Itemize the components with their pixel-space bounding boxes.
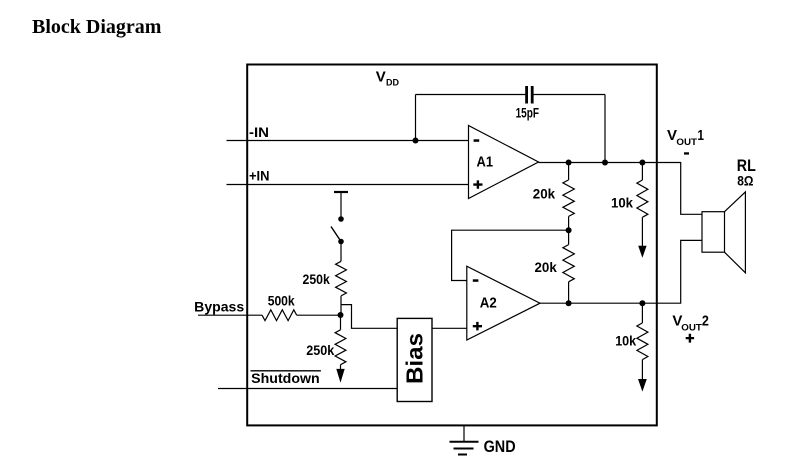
wire feedback vertical from -IN node	[415, 95, 417, 141]
node A2 out / 20k	[566, 300, 572, 306]
wire Bypass line left segment	[198, 314, 262, 316]
wire 250k upper to bypass junction	[340, 296, 342, 315]
svg-text:Bias: Bias	[402, 333, 428, 384]
arrow 10k upper	[638, 246, 646, 258]
svg-text:2: 2	[702, 312, 709, 329]
node on -IN line	[413, 138, 419, 144]
resistor R5 20k lower zigzag	[563, 245, 574, 282]
VOUT2 plus mark	[686, 334, 694, 343]
resistor R6 10k upper lead to arrow	[641, 217, 643, 246]
switch S1 arm	[331, 227, 341, 242]
svg-text:A1: A1	[477, 154, 494, 171]
VOUT1 minus mark	[684, 152, 689, 154]
ground bar 1	[450, 441, 479, 443]
wire switch lower contact to 250k	[340, 242, 342, 262]
wire +IN input line	[227, 184, 469, 186]
wire A2 output to VOUT2 and speaker	[540, 240, 702, 303]
Bias block box	[397, 318, 432, 401]
capacitor C1 plate right	[531, 86, 534, 104]
resistor R7 10k lower lead top	[641, 303, 643, 323]
switch S1 top tee bar	[334, 191, 348, 193]
arrow 250k lower	[336, 369, 344, 383]
speaker RL cone	[725, 192, 746, 273]
wire Bypass line right segment to junction	[297, 314, 341, 316]
wire 250k lower to arrow	[340, 365, 342, 371]
ground bar 3	[458, 454, 467, 456]
switch S1 stem from tee to upper contact	[340, 192, 342, 219]
node A1 out / 20k	[566, 160, 572, 166]
resistor R6 10k upper lead top	[641, 163, 643, 181]
ground bar 2	[454, 448, 474, 450]
wire feedback top horizontal left of cap	[416, 94, 526, 96]
svg-text:Shutdown: Shutdown	[251, 371, 320, 386]
svg-text:1: 1	[697, 127, 704, 144]
node A1 out / cap	[602, 160, 608, 166]
svg-text:8Ω: 8Ω	[737, 172, 753, 188]
capacitor C1 plate left	[525, 86, 528, 104]
shutdown overline	[251, 370, 321, 372]
switch lower contact	[338, 239, 344, 245]
resistor R4 20k upper zigzag	[563, 180, 574, 217]
node A2 out / 10k	[639, 300, 645, 306]
wire feedback top horizontal right of cap	[534, 94, 606, 96]
wire branch bypass junction to Bias input	[341, 305, 397, 329]
op-amp A1 triangle	[469, 126, 539, 199]
node between 20k resistors	[566, 227, 572, 233]
title: Block Diagram	[32, 16, 161, 39]
resistor R2 250k lower lead	[340, 315, 342, 330]
wire Bias output to A2 plus input	[432, 327, 467, 329]
svg-text:GND: GND	[484, 437, 516, 456]
resistor R4 20k upper lead bottom	[568, 216, 570, 230]
resistor R1 250k upper zigzag	[336, 261, 347, 296]
ground stem	[463, 426, 465, 442]
A2 plus mark	[473, 322, 482, 331]
wire A1 output to VOUT1 and speaker	[539, 163, 703, 215]
resistor R7 10k lower lead to arrow	[641, 360, 643, 380]
resistor R6 10k upper zigzag	[637, 180, 648, 217]
resistor R7 10k lower zigzag	[637, 323, 648, 360]
svg-text:+IN: +IN	[249, 169, 270, 184]
svg-text:250k: 250k	[303, 272, 331, 287]
svg-text:OUT: OUT	[681, 322, 702, 333]
resistor R5 20k lower lead top	[568, 230, 570, 244]
svg-text:A2: A2	[480, 295, 497, 312]
svg-text:20k: 20k	[533, 187, 556, 202]
A2 minus mark	[473, 279, 479, 282]
switch upper contact	[338, 216, 344, 222]
arrow 10k lower	[638, 379, 647, 392]
IC outer box	[247, 65, 657, 426]
node A1 out / 10k	[639, 160, 645, 166]
svg-text:15pF: 15pF	[516, 106, 539, 121]
svg-text:10k: 10k	[615, 334, 636, 349]
wire Shutdown line	[218, 388, 397, 390]
op-amp A2 triangle	[467, 266, 540, 340]
A1 plus mark	[473, 180, 482, 188]
svg-text:250k: 250k	[306, 343, 334, 358]
svg-text:500k: 500k	[268, 293, 295, 308]
speaker RL body rect	[702, 212, 725, 253]
resistor R4 20k upper lead top	[568, 163, 570, 180]
svg-text:-IN: -IN	[249, 125, 269, 140]
wire -IN input line	[227, 140, 469, 142]
wire A2 feedback from 20k node to A2 minus input	[452, 230, 569, 280]
svg-text:20k: 20k	[535, 260, 558, 275]
svg-text:DD: DD	[386, 77, 399, 87]
svg-text:Bypass: Bypass	[194, 299, 244, 314]
svg-text:10k: 10k	[611, 196, 633, 211]
resistor R3 500k zigzag	[262, 310, 297, 321]
svg-text:V: V	[376, 69, 386, 86]
resistor R5 20k lower lead bottom	[568, 282, 570, 303]
resistor R2 250k lower zigzag	[335, 330, 346, 365]
wire feedback down to A1 output	[604, 95, 606, 163]
svg-text:OUT: OUT	[676, 136, 697, 147]
node bypass junction	[338, 312, 344, 318]
A1 minus mark	[474, 139, 480, 142]
